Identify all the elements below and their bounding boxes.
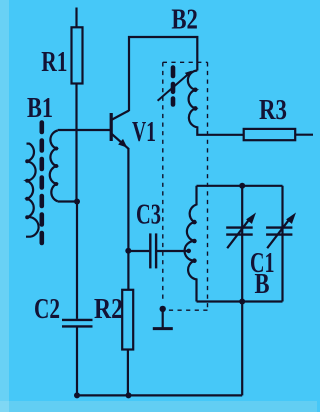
tank top rail <box>197 185 283 187</box>
junction tank bottom <box>239 299 245 305</box>
svg-text:R1: R1 <box>41 46 67 78</box>
svg-text:R2: R2 <box>94 293 123 325</box>
capacitor C1 section 1 arrow <box>227 218 250 248</box>
transistor V1 collector diagonal <box>111 111 129 121</box>
coil cusp dots tank coil <box>186 220 196 263</box>
coil cusp dots B1 right winding <box>54 147 58 187</box>
transistor V1 emitter diagonal <box>111 134 129 150</box>
capacitor C3 right wire to coil tap <box>157 250 189 252</box>
wire supply stub above R1 <box>75 8 77 27</box>
svg-text:B: B <box>255 268 270 300</box>
junction rail R2 <box>126 392 132 398</box>
wire B1 top to V1 base <box>58 129 111 131</box>
capacitor C1 section 2 arrow <box>267 218 290 248</box>
transformer B2 core <box>171 68 176 105</box>
wire R2 bottom to rail <box>127 350 129 396</box>
capacitor C1 section 2 plates <box>266 228 292 235</box>
wire emitter down to R2 <box>127 149 129 291</box>
svg-text:B2: B2 <box>171 3 198 35</box>
bottom rail <box>76 394 242 396</box>
svg-text:R3: R3 <box>259 94 287 126</box>
svg-text:B1: B1 <box>27 92 53 124</box>
transistor V1 collector wire up and over to B2 <box>129 37 197 111</box>
capacitor C2 plates <box>62 320 93 327</box>
capacitor C1 section 1 plates <box>226 228 253 235</box>
transformer B2 secondary winding <box>188 71 244 135</box>
transformer B1 right winding <box>50 131 58 202</box>
coil cusp dots B2 secondary <box>193 88 198 111</box>
capacitor C3 left wire <box>129 250 149 252</box>
resistor R3 <box>244 129 296 140</box>
wire node A down to C2 <box>76 202 78 319</box>
junction rail C2 <box>74 392 80 398</box>
svg-text:C3: C3 <box>136 199 161 231</box>
junction node A (B1/R1/C2) <box>74 199 80 205</box>
inductor B winding (tank coil with tap) <box>185 186 197 302</box>
transistor V1 emitter arrow <box>118 139 127 148</box>
junction emitter/C3 <box>125 248 131 254</box>
coil cusp dots B1 left winding <box>25 159 29 219</box>
tank bottom rail <box>197 300 283 302</box>
transformer B1 left winding <box>26 144 39 237</box>
capacitor C1 section 2 vertical <box>281 186 283 302</box>
svg-text:C2: C2 <box>34 293 60 325</box>
junction tank top <box>239 183 245 189</box>
capacitor C3 plates <box>150 233 156 268</box>
wire R1 bottom down to node A <box>75 84 77 202</box>
wire B1 bottom to node A <box>58 200 77 202</box>
resistor R2 <box>122 290 133 350</box>
dashed shield box of B2 <box>163 62 208 310</box>
svg-text:V1: V1 <box>132 116 156 148</box>
transformer B2 adjust arrow <box>158 73 190 101</box>
capacitor C1 section 1 vertical <box>241 186 243 302</box>
transformer B1 core <box>39 123 44 244</box>
wire C2 bottom to rail <box>76 328 78 396</box>
ground <box>153 306 173 329</box>
transistor V1 base bar <box>110 113 113 141</box>
wire tank bottom down to rail <box>241 302 243 396</box>
resistor R1 <box>72 27 83 83</box>
wire R3 right stub <box>295 134 313 136</box>
